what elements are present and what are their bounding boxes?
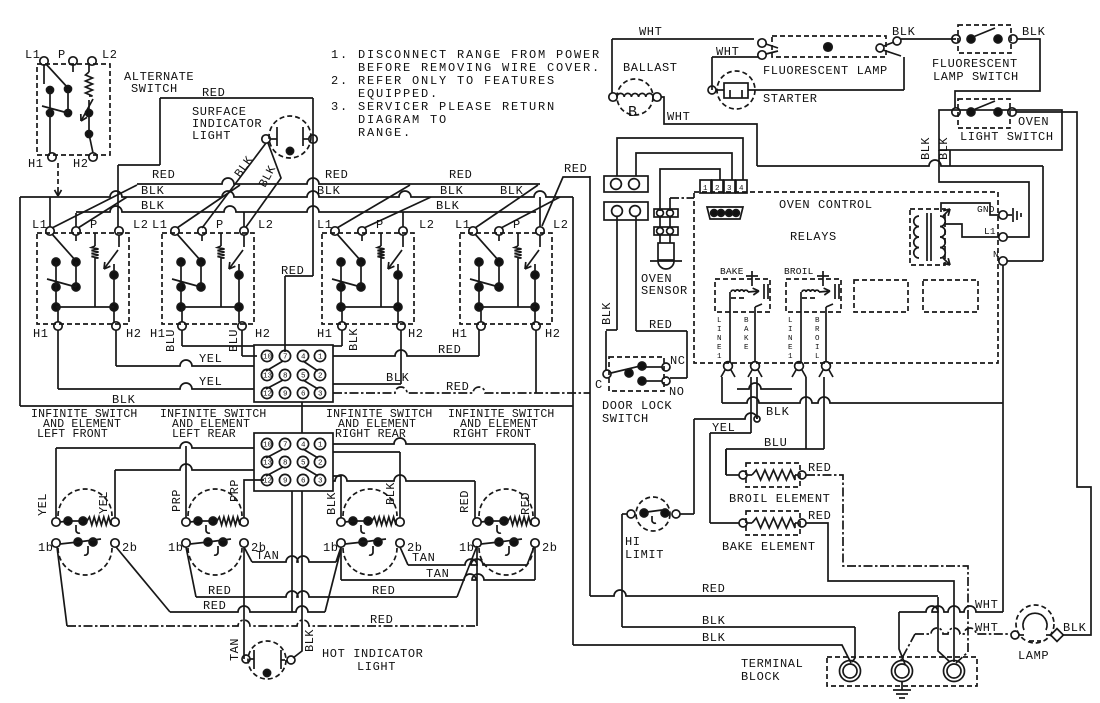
svg-text:H2: H2 xyxy=(545,327,561,341)
element E3 terminals xyxy=(337,518,345,526)
switch E4 contacts xyxy=(495,538,503,546)
terminal N oven control xyxy=(999,257,1007,265)
svg-text:BAKE: BAKE xyxy=(720,266,744,277)
lamp electrodes xyxy=(276,127,278,146)
wire BLK main to terminal block xyxy=(573,645,851,663)
svg-text:3. SERVICER PLEASE RETURN: 3. SERVICER PLEASE RETURN xyxy=(331,100,556,114)
svg-text:BLU: BLU xyxy=(764,436,787,450)
svg-text:LIGHT: LIGHT xyxy=(192,129,231,143)
terminal L1 oven control xyxy=(999,233,1007,241)
infinite switch SW2 terminal H2 xyxy=(238,322,246,330)
ballast xyxy=(617,79,653,115)
wire YEL element left front 2 xyxy=(115,464,254,470)
element E4 terminals xyxy=(473,518,481,526)
svg-text:2b: 2b xyxy=(122,541,138,555)
svg-text:10: 10 xyxy=(263,442,273,450)
wire WHT bus to N xyxy=(757,160,1043,166)
svg-text:10: 10 xyxy=(263,354,273,362)
svg-text:P: P xyxy=(90,218,98,232)
relay bake leads xyxy=(729,292,731,362)
svg-text:RED: RED xyxy=(370,613,393,627)
svg-text:H2: H2 xyxy=(255,327,271,341)
svg-text:H1: H1 xyxy=(317,327,333,341)
svg-text:L1: L1 xyxy=(317,218,333,232)
relay bake terminals xyxy=(724,362,733,371)
svg-text:7: 7 xyxy=(283,442,288,450)
svg-text:H2: H2 xyxy=(73,157,89,171)
svg-text:2: 2 xyxy=(715,185,720,193)
wire L2 right rear stub to BLK bus 2 xyxy=(402,212,404,227)
svg-text:2: 2 xyxy=(318,460,323,468)
svg-text:L: L xyxy=(788,317,793,325)
wire right bus BLK down from BLK bus 1 xyxy=(572,197,574,645)
wire BLK diagonal from light to L2 of left rear switch xyxy=(246,143,281,227)
svg-text:TERMINAL: TERMINAL xyxy=(741,657,803,671)
svg-text:LEFT REAR: LEFT REAR xyxy=(172,428,236,441)
svg-text:TAN: TAN xyxy=(256,549,279,563)
svg-text:WHT: WHT xyxy=(975,598,998,612)
svg-text:OVEN: OVEN xyxy=(1018,115,1049,129)
svg-text:B: B xyxy=(744,317,749,325)
svg-text:BLK: BLK xyxy=(317,184,341,198)
svg-text:1. DISCONNECT RANGE FROM POWER: 1. DISCONNECT RANGE FROM POWER xyxy=(331,48,601,62)
svg-text:9: 9 xyxy=(283,478,288,486)
svg-text:3: 3 xyxy=(318,478,323,486)
svg-text:BLK: BLK xyxy=(1063,621,1087,635)
svg-text:BLU: BLU xyxy=(227,329,241,352)
wire RED left front 2b to right rear 1b lower xyxy=(116,547,170,612)
svg-text:6: 6 xyxy=(301,391,306,399)
svg-text:SWITCH: SWITCH xyxy=(131,82,178,96)
fluorescent lamp xyxy=(772,36,886,57)
svg-text:RED: RED xyxy=(372,584,395,598)
relay spare enclosure 1 xyxy=(854,280,908,312)
svg-text:RED: RED xyxy=(152,168,175,182)
terminal GND xyxy=(999,211,1007,219)
svg-text:BAKE ELEMENT: BAKE ELEMENT xyxy=(722,540,816,554)
svg-text:RED: RED xyxy=(202,86,225,100)
svg-text:2b: 2b xyxy=(542,541,558,555)
infinite switch SW4 terminal L2 xyxy=(536,227,544,235)
svg-text:N: N xyxy=(993,249,999,260)
infinite switch SW2 internal bus xyxy=(181,306,239,308)
infinite switch SW1 contacts xyxy=(52,234,76,261)
svg-text:L2: L2 xyxy=(419,218,435,232)
svg-text:BLK: BLK xyxy=(112,393,136,407)
svg-text:7: 7 xyxy=(283,354,288,362)
svg-text:1: 1 xyxy=(318,442,323,450)
svg-text:RIGHT FRONT: RIGHT FRONT xyxy=(453,428,531,441)
wire BLK lamp to switch xyxy=(901,38,956,40)
svg-text:WHT: WHT xyxy=(667,110,690,124)
infinite switch SW3 terminal L2 xyxy=(399,227,407,235)
wire left edge feed to L1 left front xyxy=(19,197,21,406)
svg-text:RED: RED xyxy=(325,168,348,182)
infinite switch SW3 internal bus xyxy=(341,306,398,308)
alternate switch terminal H2 xyxy=(89,153,97,161)
alternate switch pointer arrow (dashed) xyxy=(57,163,59,190)
svg-text:O: O xyxy=(815,335,820,343)
wire L2 left rear stub to BLK bus 2 xyxy=(243,212,245,227)
svg-text:BLK: BLK xyxy=(600,302,614,325)
wire BLU broil feed xyxy=(805,377,807,449)
svg-text:H1: H1 xyxy=(452,327,468,341)
svg-text:N: N xyxy=(788,335,793,343)
alternate switch pilot resistor xyxy=(72,65,74,72)
infinite switch SW3 terminal H1 xyxy=(338,322,346,330)
switch E1 body (dashed) xyxy=(58,548,112,575)
svg-text:1b: 1b xyxy=(459,541,475,555)
infinite switch SW3 terminal P xyxy=(358,227,366,235)
infinite switch SW3 contacts xyxy=(337,234,361,261)
wire from light right terminal down to oven connector pin 7 xyxy=(312,98,314,276)
svg-text:BLK: BLK xyxy=(702,614,726,628)
wire sensor connector to plug xyxy=(660,169,720,211)
svg-text:L1: L1 xyxy=(152,218,168,232)
svg-text:L2: L2 xyxy=(258,218,274,232)
svg-text:BEFORE REMOVING WIRE COVER.: BEFORE REMOVING WIRE COVER. xyxy=(358,61,601,75)
svg-text:TAN: TAN xyxy=(412,551,435,565)
hot indicator light xyxy=(248,641,286,679)
wire RED sensor loop xyxy=(635,216,637,331)
svg-text:4: 4 xyxy=(739,185,744,193)
door lock switch contacts xyxy=(603,370,611,378)
terminal block stud 3 xyxy=(944,661,965,682)
wire BLK H2 right rear to connector pin 2 xyxy=(400,330,402,384)
svg-text:H1: H1 xyxy=(33,327,49,341)
wire BLK hi limit to terminal block xyxy=(622,626,855,628)
terminal block enclosure xyxy=(827,657,977,686)
switch E2 body (dashed) xyxy=(188,548,242,575)
svg-text:1: 1 xyxy=(788,353,793,361)
oven connector block upper xyxy=(254,345,333,402)
infinite switch SW1 thermostat contact xyxy=(118,235,120,247)
wire diagonal P left front to BLK bus xyxy=(78,197,127,228)
wire RED main to terminal block xyxy=(590,590,938,596)
svg-text:R: R xyxy=(815,326,820,334)
svg-text:BLK: BLK xyxy=(919,137,933,160)
wire WHT N to terminal block xyxy=(899,606,1003,612)
infinite switch SW2 thermostat contact xyxy=(243,235,245,247)
infinite switch SW3 thermostat contact xyxy=(402,235,404,247)
wire WHT top xyxy=(612,38,754,40)
wire BLK bus 2 xyxy=(76,206,536,212)
element E2 contacts and coil xyxy=(194,517,202,525)
oven control enclosure (dashed) xyxy=(694,192,998,363)
svg-text:1: 1 xyxy=(717,353,722,361)
oven sensor bulb xyxy=(659,235,661,243)
svg-text:RED: RED xyxy=(449,168,472,182)
svg-text:BLK: BLK xyxy=(436,199,460,213)
svg-text:E: E xyxy=(744,344,749,352)
svg-text:E: E xyxy=(717,344,722,352)
wire BLU H2 left rear to connector xyxy=(241,330,243,356)
svg-text:12: 12 xyxy=(263,391,272,399)
alternate switch contacts xyxy=(46,64,68,88)
infinite switch SW1 terminal L1 xyxy=(46,227,54,235)
terminal block P1 xyxy=(604,176,648,192)
svg-text:TAN: TAN xyxy=(426,567,449,581)
infinite switch SW1 enclosure xyxy=(37,233,129,324)
wire RED element right front 1 xyxy=(333,475,475,481)
alternate switch enclosure xyxy=(37,64,110,155)
relay bake coil xyxy=(751,271,753,286)
wire WHT to oven lamp xyxy=(915,628,1011,634)
infinite switch SW1 terminal L2 xyxy=(115,227,123,235)
wire stub BLK row to lower connector xyxy=(301,402,303,433)
svg-text:HI: HI xyxy=(625,535,641,549)
relay broil coil xyxy=(822,271,824,286)
wire from oven light switch to lamp feed xyxy=(1016,112,1091,635)
svg-text:DOOR LOCK: DOOR LOCK xyxy=(602,399,672,413)
wire TAN to hot indicator light xyxy=(243,547,245,659)
svg-text:3: 3 xyxy=(727,185,732,193)
wire bake element left xyxy=(710,522,739,524)
wire RED H1 right front to connector pin 1 xyxy=(478,330,480,356)
wire diagonal L1 right rear to RED bus xyxy=(337,185,410,228)
infinite switch SW2 terminal P xyxy=(198,227,206,235)
surface indicator light lamp xyxy=(269,116,311,158)
infinite switch SW1 terminal H1 xyxy=(54,322,62,330)
svg-text:RELAYS: RELAYS xyxy=(790,230,837,244)
starter xyxy=(717,71,755,109)
svg-text:RED: RED xyxy=(438,343,461,357)
element E2 terminals xyxy=(182,518,190,526)
switch E4 body (dashed) xyxy=(479,548,533,575)
wire BLK oven light switch to oven control L1 xyxy=(939,150,1029,237)
infinite switch SW1 terminal H2 xyxy=(112,322,120,330)
svg-text:BLOCK: BLOCK xyxy=(741,670,780,684)
svg-text:BLK: BLK xyxy=(766,405,790,419)
svg-text:RED: RED xyxy=(281,264,304,278)
element E2 body (dashed) xyxy=(188,489,242,516)
ground symbol xyxy=(1007,214,1012,216)
wire BLK element right rear 2 xyxy=(333,451,400,453)
surface indicator light box xyxy=(160,97,313,99)
fluorescent lamp right pins xyxy=(876,44,884,52)
ballast terminals xyxy=(609,93,617,101)
svg-text:TAN: TAN xyxy=(228,638,242,661)
relay broil enclosure xyxy=(786,279,841,312)
svg-text:BLK: BLK xyxy=(386,371,410,385)
infinite switch SW1 pilot resistor xyxy=(94,233,96,246)
infinite switch SW2 terminal L2 xyxy=(240,227,248,235)
svg-text:K: K xyxy=(744,335,749,343)
wire BLK H1 right rear to connector xyxy=(341,330,343,346)
ground symbol terminal block xyxy=(901,682,903,690)
svg-text:L1: L1 xyxy=(984,226,996,237)
infinite switch SW4 terminal H2 xyxy=(532,322,540,330)
bake element xyxy=(752,518,795,528)
infinite switch SW4 contacts xyxy=(475,234,499,261)
svg-text:6: 6 xyxy=(301,478,306,486)
wire YEL element left front 1 xyxy=(56,442,254,448)
svg-text:BLK: BLK xyxy=(347,328,361,351)
oven connector block lower xyxy=(254,433,333,491)
svg-text:A: A xyxy=(744,326,749,334)
switch E4 terminals 1b 2b xyxy=(473,539,481,547)
svg-text:L1: L1 xyxy=(455,218,471,232)
svg-text:BLK: BLK xyxy=(1022,25,1046,39)
svg-text:L1: L1 xyxy=(25,48,41,62)
svg-text:FLUORESCENT LAMP: FLUORESCENT LAMP xyxy=(763,64,888,78)
wire BLK from switch down to oven light switch xyxy=(955,39,1040,108)
infinite switch SW3 terminal L1 xyxy=(331,227,339,235)
svg-text:BLK: BLK xyxy=(303,629,317,652)
infinite switch SW1 internal bus xyxy=(56,306,114,308)
svg-text:1b: 1b xyxy=(38,541,54,555)
infinite switch SW4 pilot resistor xyxy=(517,233,519,246)
relay broil leads xyxy=(800,292,802,362)
relay bake enclosure xyxy=(715,279,770,312)
svg-text:H2: H2 xyxy=(126,327,142,341)
infinite switch SW2 terminal H1 xyxy=(178,322,186,330)
svg-text:13: 13 xyxy=(263,460,273,468)
svg-text:HOT INDICATOR: HOT INDICATOR xyxy=(322,647,423,661)
svg-text:P: P xyxy=(216,218,224,232)
oven light switch enclosure xyxy=(939,110,1062,150)
infinite switch SW4 terminal H1 xyxy=(477,322,485,330)
door lock switch enclosure xyxy=(609,357,664,391)
wire PRP element left rear 1 xyxy=(185,446,187,518)
element E1 terminals xyxy=(52,518,60,526)
alternate switch terminal H1 xyxy=(48,153,56,161)
wire diagonal L1 right front to RED bus xyxy=(475,185,538,228)
wire P left front stub xyxy=(75,213,77,227)
svg-text:1: 1 xyxy=(703,185,708,193)
infinite switch SW3 pilot resistor xyxy=(380,233,382,246)
wire RED long feed from connector to right bus xyxy=(535,330,537,393)
oven lamp xyxy=(1016,605,1054,643)
wire BLK L1 relay row to N xyxy=(722,397,1003,403)
svg-text:BLK: BLK xyxy=(325,492,339,515)
svg-text:RED: RED xyxy=(808,509,831,523)
alternate switch terminals L1 P L2 xyxy=(40,57,48,65)
svg-text:B: B xyxy=(815,317,820,325)
wire RED element right front 2 xyxy=(333,438,535,444)
oven control plug 1234 xyxy=(700,180,711,193)
svg-text:P: P xyxy=(376,218,384,232)
svg-text:BLU: BLU xyxy=(164,329,178,352)
svg-text:1: 1 xyxy=(318,354,323,362)
svg-text:BROIL ELEMENT: BROIL ELEMENT xyxy=(729,492,830,506)
infinite switch SW4 terminal P xyxy=(495,227,503,235)
svg-text:P: P xyxy=(58,48,66,62)
fluorescent lamp switch xyxy=(958,25,1011,53)
wire TAN right rear 1b to right front 2b lower xyxy=(340,547,342,580)
svg-text:E: E xyxy=(788,344,793,352)
infinite switch SW4 enclosure xyxy=(460,233,552,324)
wire RED bus xyxy=(137,178,540,184)
wire bake element RED to terminal block xyxy=(806,523,954,662)
svg-text:WHT: WHT xyxy=(975,621,998,635)
switch E3 contacts xyxy=(359,538,367,546)
svg-text:P: P xyxy=(513,218,521,232)
svg-text:RED: RED xyxy=(208,584,231,598)
svg-text:L2: L2 xyxy=(553,218,569,232)
wire YEL H2 left front to connector xyxy=(115,330,117,366)
oven sensor connector pair xyxy=(654,209,678,217)
wire diagonal L1 left front to RED bus xyxy=(52,185,137,228)
svg-text:N: N xyxy=(717,335,722,343)
svg-text:LIGHT SWITCH: LIGHT SWITCH xyxy=(960,130,1054,144)
lower connector jumpers xyxy=(266,449,283,458)
wire RED left front 1b to right front 1b long xyxy=(57,547,67,626)
svg-text:I: I xyxy=(717,326,722,334)
svg-text:BLK: BLK xyxy=(702,631,726,645)
wire N down to relay common and WHT xyxy=(1002,265,1004,612)
svg-text:B: B xyxy=(628,104,637,121)
svg-text:LEFT FRONT: LEFT FRONT xyxy=(37,428,108,441)
svg-text:PRP: PRP xyxy=(170,489,184,512)
svg-text:L: L xyxy=(717,317,722,325)
svg-text:NO: NO xyxy=(669,385,685,399)
svg-text:RED: RED xyxy=(702,582,725,596)
wire PRP element left rear 2 xyxy=(244,480,264,518)
upper connector jumpers xyxy=(266,361,283,371)
element E1 contacts and coil xyxy=(64,517,72,525)
svg-text:L2: L2 xyxy=(102,48,118,62)
relay broil terminals xyxy=(795,362,804,371)
svg-text:BLK: BLK xyxy=(141,199,165,213)
element E3 contacts and coil xyxy=(349,517,357,525)
svg-text:BLK: BLK xyxy=(141,184,165,198)
svg-text:BLK: BLK xyxy=(440,184,464,198)
wire BLK bus 1 xyxy=(20,191,573,197)
svg-text:I: I xyxy=(788,326,793,334)
svg-text:3: 3 xyxy=(318,391,323,399)
svg-text:H2: H2 xyxy=(408,327,424,341)
wire right bus RED down xyxy=(589,176,591,596)
wire RED jumper from L2 right front to right bus xyxy=(542,177,590,226)
wire TAN right rear 2b to right front 2b xyxy=(400,547,408,565)
svg-text:LIGHT: LIGHT xyxy=(357,660,396,674)
element E3 body (dashed) xyxy=(343,489,397,516)
svg-text:BROIL: BROIL xyxy=(784,266,814,277)
element E4 body (dashed) xyxy=(479,489,533,516)
svg-text:RED: RED xyxy=(203,599,226,613)
infinite switch SW4 thermostat contact xyxy=(539,235,541,247)
wire hi limit to BLK stud xyxy=(680,513,694,515)
lamp terminals xyxy=(262,135,270,143)
wire RED left rear 1b to right front 1b xyxy=(186,547,196,597)
wire YEL H1 left front to connector xyxy=(57,330,59,389)
svg-text:RED: RED xyxy=(649,318,672,332)
svg-text:8: 8 xyxy=(283,460,288,468)
infinite switch SW2 terminal L1 xyxy=(171,227,179,235)
hi limit switch xyxy=(636,497,670,531)
svg-text:OVEN CONTROL: OVEN CONTROL xyxy=(779,198,873,212)
wire TAN left rear 2b to right rear 1b xyxy=(244,547,252,562)
svg-text:9: 9 xyxy=(283,391,288,399)
terminal block stud 1 xyxy=(840,661,861,682)
svg-text:RED: RED xyxy=(458,490,472,513)
infinite switch SW2 enclosure xyxy=(162,233,254,324)
switch E2 terminals 1b 2b xyxy=(182,539,190,547)
svg-text:DIAGRAM TO: DIAGRAM TO xyxy=(358,113,448,127)
wire broil element RED to terminal block xyxy=(806,475,968,663)
wire YEL relay to hi-limit xyxy=(756,377,758,419)
wire diagonal L1 left rear to RED bus xyxy=(177,185,240,228)
wire broil element left xyxy=(725,449,727,475)
wire L2 right front feed xyxy=(539,197,541,227)
svg-text:RED: RED xyxy=(446,380,469,394)
wire transformer to GND terminal xyxy=(941,203,998,215)
svg-text:L2: L2 xyxy=(133,218,149,232)
wire jumper bake line to broil line xyxy=(737,383,792,389)
svg-text:STARTER: STARTER xyxy=(763,92,818,106)
element E1 body (dashed) xyxy=(58,489,112,516)
